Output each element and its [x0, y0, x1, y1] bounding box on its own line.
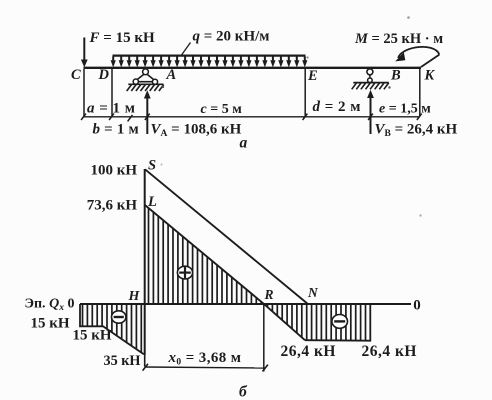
svg-text:S: S [148, 158, 156, 174]
svg-text:L: L [147, 194, 157, 210]
hatch right negative area [268, 304, 366, 341]
x0 extension line at R [263, 305, 265, 372]
svg-text:c = 5 м: c = 5 м [201, 102, 243, 117]
svg-text:35 кН: 35 кН [104, 353, 141, 369]
svg-text:100 кН: 100 кН [90, 163, 137, 179]
reaction V_A arrow [146, 96, 148, 135]
svg-text:15 кН: 15 кН [73, 327, 112, 343]
minus sign circle right [332, 315, 348, 329]
svg-text:15 кН: 15 кН [31, 316, 70, 332]
line L-R-corner [145, 205, 305, 340]
moment arc arrow at K [421, 55, 439, 67]
force F=15kN arrow at C [83, 38, 85, 63]
svg-text:N: N [307, 285, 319, 300]
wire beam C-K main line [84, 67, 422, 69]
svg-text:b = 1 м: b = 1 м [93, 122, 139, 138]
svg-text:26,4 кН: 26,4 кН [281, 343, 337, 360]
extension line at D [111, 69, 113, 117]
svg-text:E: E [307, 68, 318, 84]
x0 extension below 35kN tip [144, 354, 146, 366]
svg-text:H: H [128, 289, 141, 304]
svg-text:0: 0 [413, 298, 421, 314]
distributed load q bar [113, 54, 306, 56]
ordinate line S-A-35 [144, 169, 146, 355]
extension line at E [304, 69, 306, 117]
dim ticks [81, 114, 422, 122]
right rect outline [305, 304, 370, 341]
roller support B [352, 69, 389, 90]
minus sign circle left [112, 311, 126, 323]
svg-text:73,6 кН: 73,6 кН [87, 198, 138, 214]
extension line at K [419, 69, 421, 117]
svg-text:a = 1 м: a = 1 м [87, 101, 136, 117]
svg-text:d = 2 м: d = 2 м [313, 99, 362, 115]
svg-text:F = 15 кН: F = 15 кН [89, 30, 155, 46]
x0 dim ticks [143, 364, 148, 371]
svg-text:R: R [264, 287, 274, 302]
hatch left negative area [83, 304, 142, 355]
svg-text:б: б [239, 384, 248, 400]
svg-text:B: B [390, 68, 401, 84]
svg-text:Эп. Qx 0: Эп. Qx 0 [25, 297, 75, 314]
reaction V_B arrow [370, 95, 372, 134]
plus sign circle [177, 266, 192, 279]
left rect outline [80, 304, 144, 354]
dimension line [83, 116, 420, 118]
svg-text:VA = 108,6 кН: VA = 108,6 кН [151, 122, 242, 140]
extension line at C [83, 69, 85, 117]
svg-text:x0 = 3,68 м: x0 = 3,68 м [168, 350, 242, 368]
svg-text:K: K [424, 68, 436, 84]
pinned support A [127, 69, 164, 91]
svg-text:а: а [240, 135, 248, 152]
svg-text:C: C [71, 67, 81, 83]
distributed load arrows [111, 56, 308, 67]
svg-text:D: D [98, 67, 110, 83]
svg-text:26,4 кН: 26,4 кН [362, 343, 418, 360]
svg-text:M = 25 кН · м: M = 25 кН · м [354, 31, 443, 47]
svg-text:VB = 26,4 кН: VB = 26,4 кН [375, 122, 458, 140]
Q diagram zero axis [80, 303, 411, 305]
leader line q [182, 43, 191, 56]
svg-text:e = 1,5 м: e = 1,5 м [379, 102, 431, 117]
line S-N [145, 169, 307, 303]
faint scan specks (noise) [407, 16, 410, 19]
svg-text:q = 20 кН/м: q = 20 кН/м [193, 29, 270, 45]
hatch positive area [149, 204, 262, 304]
svg-text:A: A [166, 67, 177, 83]
x0 dimension line [145, 367, 266, 368]
